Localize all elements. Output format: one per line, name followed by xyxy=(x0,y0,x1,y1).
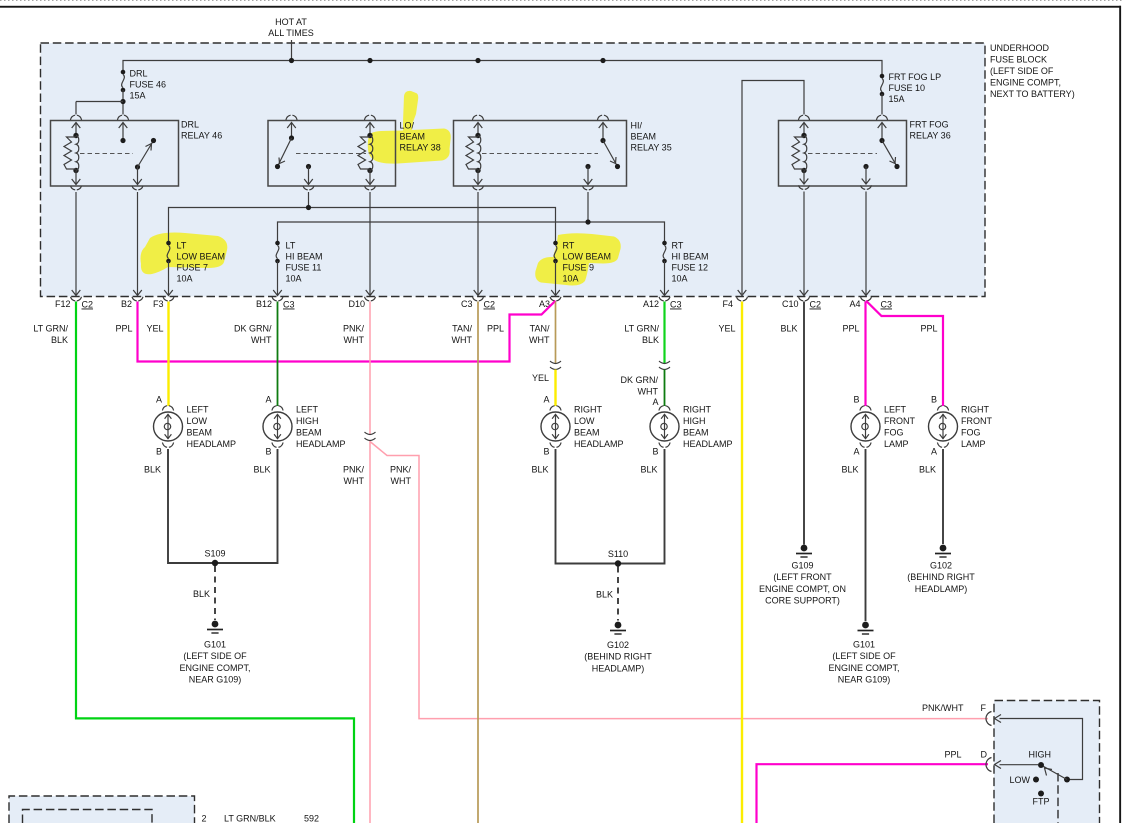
svg-text:BLK: BLK xyxy=(193,589,210,599)
svg-text:F: F xyxy=(981,703,987,713)
svg-text:BLK: BLK xyxy=(780,324,797,334)
svg-text:FRT FOG: FRT FOG xyxy=(910,120,949,130)
node junction hi-beam bus xyxy=(585,219,590,224)
svg-text:BLK: BLK xyxy=(253,465,270,475)
connector B12 C3 xyxy=(256,290,295,310)
svg-text:(LEFT FRONT: (LEFT FRONT xyxy=(773,572,832,582)
svg-text:G102: G102 xyxy=(607,640,629,650)
wire TAN/WHT from C3/C2 down page xyxy=(477,302,479,823)
connector D10 xyxy=(348,290,375,309)
wire switch feed from F xyxy=(1000,719,1083,780)
label LO/BEAM RELAY 38 xyxy=(400,121,441,153)
svg-text:YEL: YEL xyxy=(146,324,163,334)
top border line xyxy=(0,6,1121,8)
svg-text:A: A xyxy=(156,395,162,405)
svg-text:WHT: WHT xyxy=(344,476,365,486)
fuse FRT FOG LP FUSE 10 15A xyxy=(880,74,885,115)
label LT GRN/BLK 592 xyxy=(224,814,319,823)
svg-text:HEADLAMP: HEADLAMP xyxy=(296,439,346,449)
svg-text:A: A xyxy=(652,397,658,407)
top dotted page edge xyxy=(0,0,1123,2)
svg-text:FUSE BLOCK: FUSE BLOCK xyxy=(990,55,1047,65)
module box bottom left inner xyxy=(23,810,153,823)
svg-text:FUSE 9: FUSE 9 xyxy=(563,263,595,273)
svg-text:DRL: DRL xyxy=(130,69,148,79)
relay FRT FOG RELAY 36 xyxy=(779,115,907,189)
svg-text:(BEHIND RIGHT: (BEHIND RIGHT xyxy=(584,652,652,662)
fuse LT LOW BEAM FUSE 7 10A xyxy=(166,241,171,295)
svg-text:BLK: BLK xyxy=(531,465,548,475)
wire low-beam feed bus from LO/BEAM relay to fuses 7 and 9 xyxy=(169,208,556,244)
svg-text:LOW: LOW xyxy=(574,416,595,426)
label FRT FOG RELAY 36 xyxy=(910,120,951,141)
connector F12 C2 xyxy=(55,290,93,310)
svg-text:HI/: HI/ xyxy=(631,121,643,131)
label RT HI BEAM FUSE 12 10A xyxy=(672,241,709,284)
label LEFT LOW BEAM HEADLAMP xyxy=(187,405,237,450)
svg-text:G109: G109 xyxy=(791,561,813,571)
svg-text:LT GRN/: LT GRN/ xyxy=(624,324,659,334)
label HI/BEAM RELAY 35 xyxy=(631,121,672,153)
highlighter over RT LOW BEAM FUSE 9 label xyxy=(535,233,621,285)
svg-text:PNK/: PNK/ xyxy=(343,465,365,475)
node bus junction at LO/BEAM coil feed xyxy=(367,58,372,63)
wire PPL from A4 to left front fog lamp xyxy=(864,302,866,407)
wire LT GRN/BLK from F12 to bottom left xyxy=(76,302,354,823)
node bus junction at HI/BEAM switch feed xyxy=(600,58,605,63)
wire TAN/WHT from A3 to inline connector xyxy=(555,302,557,364)
svg-text:C3: C3 xyxy=(283,300,295,310)
svg-text:LT GRN/BLK: LT GRN/BLK xyxy=(224,814,276,823)
svg-text:FUSE 46: FUSE 46 xyxy=(130,80,167,90)
connector C10 C2 xyxy=(782,290,821,310)
wire PPL branch from A4 to right front fog lamp xyxy=(866,301,943,406)
svg-text:B: B xyxy=(931,395,937,405)
svg-text:A4: A4 xyxy=(849,299,860,309)
highlighter over LT LOW BEAM FUSE 7 label xyxy=(141,233,228,275)
svg-text:A: A xyxy=(265,395,271,405)
svg-text:15A: 15A xyxy=(130,91,146,101)
svg-text:B2: B2 xyxy=(121,299,132,309)
svg-text:RELAY 38: RELAY 38 xyxy=(400,143,441,153)
svg-text:15A: 15A xyxy=(889,94,905,104)
svg-text:PNK/WHT: PNK/WHT xyxy=(922,703,964,713)
svg-text:PPL: PPL xyxy=(944,750,961,760)
relay HI/BEAM RELAY 35 xyxy=(454,115,627,190)
wire DK GRN/WHT from B12 to left high beam headlamp xyxy=(277,302,279,407)
label RT LOW BEAM FUSE 9 10A xyxy=(563,241,612,284)
svg-text:B: B xyxy=(652,447,658,457)
wire DK GRN/WHT from inline connector to right high beam headlamp xyxy=(664,370,666,407)
wire feed from HOT AT ALL TIMES into fuse block xyxy=(291,40,293,61)
svg-text:A: A xyxy=(543,395,549,405)
underhood fuse block box xyxy=(41,43,986,297)
svg-text:LOW: LOW xyxy=(1009,775,1030,785)
label LEFT FRONT FOG LAMP xyxy=(884,405,915,450)
svg-text:C2: C2 xyxy=(82,300,94,310)
svg-text:LT: LT xyxy=(177,241,187,251)
svg-text:10A: 10A xyxy=(563,274,579,284)
svg-text:ALL TIMES: ALL TIMES xyxy=(268,28,314,38)
connector inline on PNK/WHT wire xyxy=(365,432,376,440)
wire power bus xyxy=(123,61,882,77)
svg-text:LEFT: LEFT xyxy=(296,405,319,415)
svg-text:BEAM: BEAM xyxy=(296,428,322,438)
wire PNK/WHT branch to fog lamp switch xyxy=(370,442,988,719)
svg-text:FUSE 7: FUSE 7 xyxy=(177,263,209,273)
svg-text:PNK/: PNK/ xyxy=(343,324,365,334)
svg-text:WHT: WHT xyxy=(344,335,365,345)
ground G101 right xyxy=(828,622,899,685)
wire LO/BEAM relay output drop xyxy=(308,192,310,208)
wire bridge from F4 to FRT FOG relay coil xyxy=(742,81,804,295)
wire YEL from F3 to left low beam headlamp xyxy=(167,302,169,407)
svg-text:LAMP: LAMP xyxy=(961,439,986,449)
svg-text:FRT FOG LP: FRT FOG LP xyxy=(889,72,942,82)
label DK GRN/WHT at B12 xyxy=(234,324,272,346)
fuse RT HI BEAM FUSE 12 10A xyxy=(662,241,667,295)
svg-text:BLK: BLK xyxy=(144,465,161,475)
svg-text:B: B xyxy=(853,395,859,405)
svg-text:NEAR G109): NEAR G109) xyxy=(838,675,891,685)
svg-text:G101: G101 xyxy=(204,640,226,650)
svg-text:LOW BEAM: LOW BEAM xyxy=(177,252,226,262)
relay LO/BEAM RELAY 38 xyxy=(268,115,396,190)
svg-text:DK GRN/: DK GRN/ xyxy=(620,375,658,385)
svg-text:BEAM: BEAM xyxy=(187,428,213,438)
wire FRT FOG switch output to A4 xyxy=(865,192,867,295)
svg-text:BLK: BLK xyxy=(51,335,68,345)
svg-text:LEFT: LEFT xyxy=(884,405,907,415)
svg-text:NEXT TO BATTERY): NEXT TO BATTERY) xyxy=(990,89,1075,99)
lamp LEFT HIGH BEAM HEADLAMP xyxy=(263,395,292,457)
label LT GRN/BLK at A12 xyxy=(624,324,659,346)
wire BLK dashed S110 to G102 xyxy=(617,567,619,621)
svg-text:C10: C10 xyxy=(782,299,799,309)
label DK GRN/WHT above right high beam headlamp xyxy=(620,375,658,397)
svg-text:PPL: PPL xyxy=(920,324,937,334)
svg-text:WHT: WHT xyxy=(391,476,412,486)
svg-text:RIGHT: RIGHT xyxy=(961,405,990,415)
ground G102 behind right headlamp (fog) xyxy=(907,545,975,594)
wire BLK right fog lamp to G102 xyxy=(942,449,944,544)
label LEFT HIGH BEAM HEADLAMP xyxy=(296,405,346,450)
fog lamp switch box xyxy=(994,701,1100,823)
svg-text:A: A xyxy=(853,447,859,457)
svg-text:FTP: FTP xyxy=(1033,797,1050,807)
svg-text:G102: G102 xyxy=(930,561,952,571)
connector B2 xyxy=(121,290,143,309)
wire PNK/WHT from D10 down page xyxy=(369,302,371,823)
label PPL and D at switch xyxy=(944,750,987,760)
svg-text:CORE SUPPORT): CORE SUPPORT) xyxy=(765,596,840,606)
wire FRT FOG coil output to C10 xyxy=(803,192,805,295)
connector D on switch box xyxy=(986,758,1001,772)
connector A3 xyxy=(539,290,561,309)
node bus junction at LO/BEAM switch feed xyxy=(289,58,294,63)
node LOW contact xyxy=(1009,775,1039,785)
svg-text:RIGHT: RIGHT xyxy=(683,405,712,415)
svg-text:(BEHIND RIGHT: (BEHIND RIGHT xyxy=(907,572,975,582)
wire hi-beam feed bus from HI/BEAM relay to fuses 11 and 12 xyxy=(278,222,665,243)
connector A12 C3 xyxy=(643,290,682,310)
svg-text:BLK: BLK xyxy=(841,465,858,475)
ground G109 xyxy=(759,545,846,606)
wire BLK left fog lamp to G101 xyxy=(865,449,867,621)
svg-text:RT: RT xyxy=(563,241,575,251)
svg-text:10A: 10A xyxy=(177,274,193,284)
svg-text:RELAY 46: RELAY 46 xyxy=(181,131,222,141)
connector C3 C2 xyxy=(461,290,495,310)
label PNK/WHT at D10 xyxy=(343,324,365,346)
wire HI/BEAM relay output drop xyxy=(587,192,589,222)
label FRT FOG LP FUSE 10 15A xyxy=(889,72,942,104)
svg-text:BEAM: BEAM xyxy=(631,132,657,142)
svg-text:(LEFT SIDE OF: (LEFT SIDE OF xyxy=(832,651,896,661)
svg-text:PNK/: PNK/ xyxy=(390,465,412,475)
svg-text:B: B xyxy=(543,447,549,457)
svg-text:592: 592 xyxy=(304,814,319,823)
svg-text:TAN/: TAN/ xyxy=(530,324,550,334)
wire YEL from F4 down page xyxy=(741,302,743,823)
node splice S110 xyxy=(608,549,628,567)
wire DRL switch output to B2 xyxy=(137,192,139,295)
fuse RT LOW BEAM FUSE 9 10A xyxy=(553,241,558,295)
svg-text:LT: LT xyxy=(286,241,296,251)
svg-text:BLK: BLK xyxy=(919,465,936,475)
svg-text:BLK: BLK xyxy=(640,465,657,475)
svg-text:WHT: WHT xyxy=(251,335,272,345)
svg-text:RIGHT: RIGHT xyxy=(574,405,603,415)
svg-text:C3: C3 xyxy=(670,300,682,310)
svg-text:WHT: WHT xyxy=(529,335,550,345)
label UNDERHOOD FUSE BLOCK xyxy=(990,43,1075,99)
svg-text:10A: 10A xyxy=(286,274,302,284)
wire BLK left headlamps to S109 xyxy=(168,449,278,563)
svg-text:DRL: DRL xyxy=(181,120,199,130)
right border line xyxy=(1119,6,1121,823)
svg-text:S110: S110 xyxy=(608,549,628,559)
fuse DRL FUSE 46 15A xyxy=(76,70,126,115)
module box bottom left outer xyxy=(9,796,195,823)
svg-text:HEADLAMP: HEADLAMP xyxy=(683,439,733,449)
ground G102 behind right headlamp xyxy=(584,622,652,674)
svg-text:HI BEAM: HI BEAM xyxy=(672,252,709,262)
svg-text:2: 2 xyxy=(202,814,207,823)
svg-text:HEADLAMP: HEADLAMP xyxy=(574,439,624,449)
svg-text:G101: G101 xyxy=(853,640,875,650)
connector F3 xyxy=(153,290,174,309)
svg-text:HI BEAM: HI BEAM xyxy=(286,252,323,262)
svg-text:A12: A12 xyxy=(643,299,659,309)
node bus junction at HI/BEAM coil feed xyxy=(475,58,480,63)
svg-text:C2: C2 xyxy=(484,300,496,310)
lamp LEFT LOW BEAM HEADLAMP xyxy=(154,395,183,457)
label LT HI BEAM FUSE 11 10A xyxy=(286,241,323,284)
connector inline on A3 wire xyxy=(550,361,561,369)
svg-text:HEADLAMP): HEADLAMP) xyxy=(915,584,968,594)
svg-text:BLK: BLK xyxy=(596,590,613,600)
svg-text:FUSE 12: FUSE 12 xyxy=(672,263,709,273)
svg-text:FOG: FOG xyxy=(884,428,904,438)
svg-text:ENGINE COMPT,: ENGINE COMPT, xyxy=(179,663,250,673)
connector inline on A12 wire xyxy=(659,361,670,369)
svg-text:LOW BEAM: LOW BEAM xyxy=(563,252,612,262)
node junction low-beam bus xyxy=(306,205,311,210)
label RIGHT HIGH BEAM HEADLAMP xyxy=(683,405,733,450)
label LT LOW BEAM FUSE 7 10A xyxy=(177,241,226,284)
svg-text:C2: C2 xyxy=(810,300,822,310)
svg-text:10A: 10A xyxy=(672,274,688,284)
svg-text:HIGH: HIGH xyxy=(1029,750,1052,760)
fuse LT HI BEAM FUSE 11 10A xyxy=(275,241,280,295)
svg-text:C3: C3 xyxy=(461,299,473,309)
svg-text:LAMP: LAMP xyxy=(884,439,909,449)
lamp RIGHT HIGH BEAM HEADLAMP xyxy=(650,397,679,457)
svg-text:A: A xyxy=(931,447,937,457)
label PNK/WHT left branch xyxy=(343,465,365,487)
svg-text:B: B xyxy=(156,447,162,457)
fog lamp switch inner dashed divider xyxy=(1057,773,1059,823)
wire LO/BEAM coil output to D10 xyxy=(369,192,371,295)
svg-text:(LEFT SIDE OF: (LEFT SIDE OF xyxy=(183,651,247,661)
svg-text:FOG: FOG xyxy=(961,428,981,438)
svg-text:WHT: WHT xyxy=(638,387,659,397)
svg-text:HIGH: HIGH xyxy=(683,416,706,426)
svg-text:TAN/: TAN/ xyxy=(452,324,472,334)
svg-text:D10: D10 xyxy=(348,299,365,309)
ground G101 left xyxy=(179,621,250,685)
svg-text:RT: RT xyxy=(672,241,684,251)
svg-text:BEAM: BEAM xyxy=(574,428,600,438)
label HOT AT ALL TIMES xyxy=(268,17,314,38)
wire BLK from C10 to G109 xyxy=(803,302,805,545)
wire BLK dashed S109 to G101 xyxy=(214,566,216,620)
svg-text:S109: S109 xyxy=(204,549,225,559)
wire LT GRN/BLK from A12 to inline connector xyxy=(663,302,665,364)
svg-text:UNDERHOOD: UNDERHOOD xyxy=(990,43,1050,53)
svg-text:HIGH: HIGH xyxy=(296,416,319,426)
svg-text:DK GRN/: DK GRN/ xyxy=(234,324,272,334)
wire PPL from B2 to A3 xyxy=(138,301,556,362)
svg-text:FRONT: FRONT xyxy=(961,416,992,426)
wire YEL from inline connector to right low beam headlamp xyxy=(554,370,556,407)
label PNK/WHT right branch xyxy=(390,465,412,487)
label RIGHT FRONT FOG LAMP xyxy=(961,405,992,450)
svg-text:YEL: YEL xyxy=(718,324,735,334)
svg-text:BEAM: BEAM xyxy=(683,428,709,438)
svg-text:FUSE 11: FUSE 11 xyxy=(286,263,322,273)
svg-text:B12: B12 xyxy=(256,299,272,309)
wire DRL coil output to F12 xyxy=(75,192,77,295)
svg-text:B: B xyxy=(265,447,271,457)
svg-text:ENGINE COMPT,: ENGINE COMPT, xyxy=(828,663,899,673)
relay DRL RELAY 46 xyxy=(51,115,179,190)
svg-text:(LEFT SIDE OF: (LEFT SIDE OF xyxy=(990,66,1054,76)
connector A4 C3 xyxy=(849,290,892,310)
lamp LEFT FRONT FOG LAMP xyxy=(851,395,880,457)
label TAN/WHT at A3 xyxy=(529,324,550,346)
svg-text:C3: C3 xyxy=(881,300,893,310)
lamp RIGHT LOW BEAM HEADLAMP xyxy=(541,395,570,457)
svg-text:RELAY 36: RELAY 36 xyxy=(910,131,951,141)
wire HI/BEAM coil output to C3/C2 xyxy=(477,192,479,295)
label DRL FUSE 46 15A xyxy=(130,69,167,101)
lamp RIGHT FRONT FOG LAMP xyxy=(929,395,958,457)
label TAN/WHT at C3/C2 xyxy=(452,324,473,346)
label LT GRN/BLK at F12 xyxy=(33,324,68,346)
svg-text:HEADLAMP: HEADLAMP xyxy=(187,439,237,449)
wire BLK right headlamps to S110 xyxy=(556,449,665,564)
node FTP contact xyxy=(1033,791,1050,807)
svg-text:F3: F3 xyxy=(153,299,164,309)
svg-text:WHT: WHT xyxy=(452,335,473,345)
label PNK/WHT and F at switch xyxy=(922,703,987,713)
svg-text:F12: F12 xyxy=(55,299,71,309)
label DRL RELAY 46 xyxy=(181,120,222,141)
switch arm fog lamp switch xyxy=(1041,765,1070,783)
svg-text:RELAY 35: RELAY 35 xyxy=(631,143,672,153)
svg-text:PPL: PPL xyxy=(487,324,504,334)
svg-text:FRONT: FRONT xyxy=(884,416,915,426)
connector F on switch box xyxy=(986,712,1001,726)
label RIGHT LOW BEAM HEADLAMP xyxy=(574,405,624,450)
svg-text:BEAM: BEAM xyxy=(400,132,426,142)
svg-text:NEAR G109): NEAR G109) xyxy=(189,675,242,685)
highlighter over LO/BEAM RELAY 38 label xyxy=(368,91,451,164)
wire PPL from below to fog lamp switch connector D xyxy=(757,764,989,823)
svg-text:FUSE 10: FUSE 10 xyxy=(889,83,926,93)
svg-text:PPL: PPL xyxy=(115,324,132,334)
svg-text:YEL: YEL xyxy=(532,373,549,383)
svg-text:PPL: PPL xyxy=(842,324,859,334)
svg-text:BLK: BLK xyxy=(642,335,659,345)
svg-text:D: D xyxy=(981,750,988,760)
svg-text:F4: F4 xyxy=(722,299,733,309)
svg-text:ENGINE COMPT, ON: ENGINE COMPT, ON xyxy=(759,584,846,594)
svg-text:LT GRN/: LT GRN/ xyxy=(33,324,68,334)
svg-text:LOW: LOW xyxy=(187,416,208,426)
svg-text:ENGINE COMPT,: ENGINE COMPT, xyxy=(990,78,1061,88)
svg-text:HOT AT: HOT AT xyxy=(275,17,307,27)
svg-text:LO/: LO/ xyxy=(400,121,415,131)
connector F4 xyxy=(722,290,747,309)
svg-text:HEADLAMP): HEADLAMP) xyxy=(592,663,645,673)
svg-text:LEFT: LEFT xyxy=(187,405,210,415)
node HIGH contact xyxy=(1000,750,1052,769)
node splice S109 xyxy=(204,549,225,567)
